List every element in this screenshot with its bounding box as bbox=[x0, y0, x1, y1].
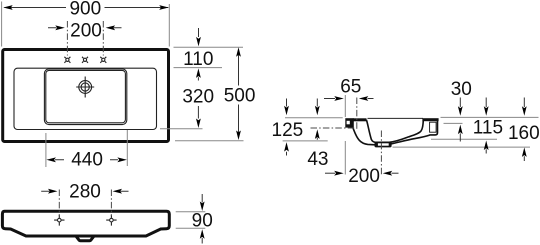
svg-text:440: 440 bbox=[71, 150, 103, 171]
svg-text:30: 30 bbox=[451, 79, 472, 100]
svg-text:90: 90 bbox=[192, 211, 213, 232]
svg-text:200: 200 bbox=[348, 166, 380, 187]
svg-text:900: 900 bbox=[69, 0, 101, 20]
svg-text:110: 110 bbox=[183, 49, 213, 70]
svg-text:125: 125 bbox=[272, 120, 304, 141]
svg-text:500: 500 bbox=[224, 85, 256, 106]
svg-text:115: 115 bbox=[473, 118, 503, 139]
svg-text:160: 160 bbox=[508, 123, 540, 144]
svg-text:43: 43 bbox=[307, 149, 328, 170]
svg-text:320: 320 bbox=[182, 87, 214, 108]
svg-text:200: 200 bbox=[70, 20, 102, 41]
svg-text:65: 65 bbox=[340, 76, 361, 97]
svg-text:280: 280 bbox=[69, 181, 101, 202]
